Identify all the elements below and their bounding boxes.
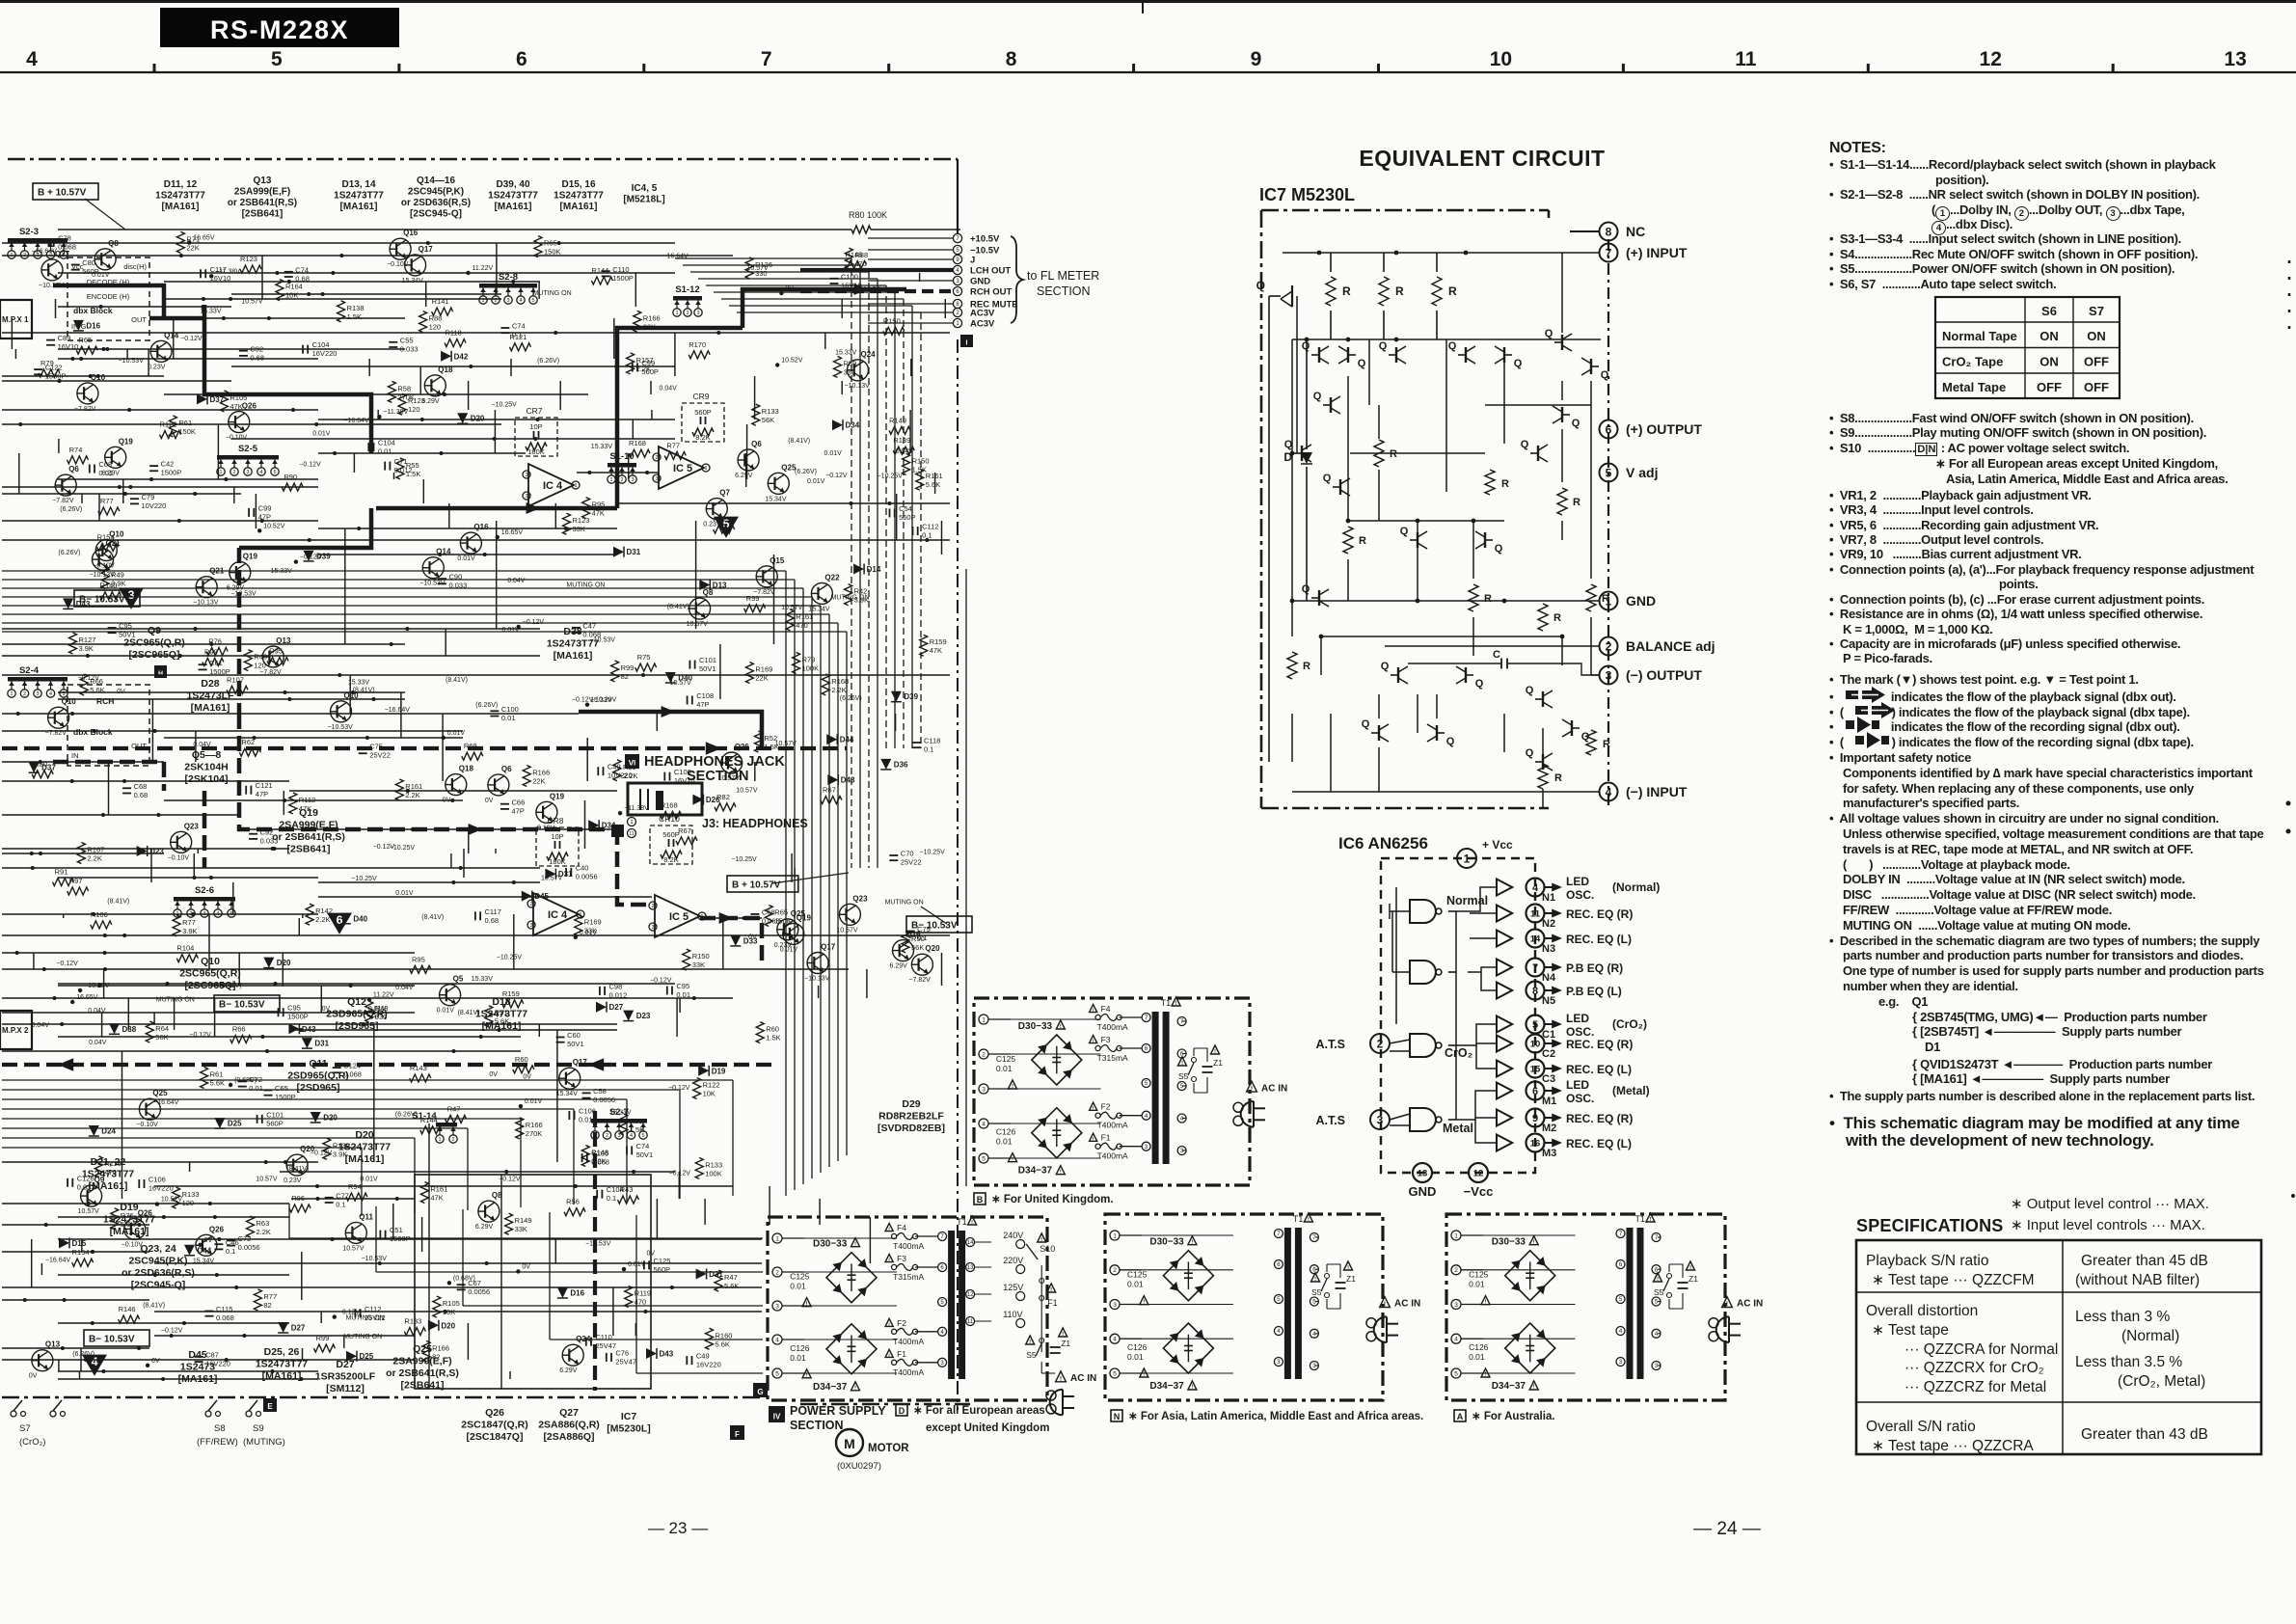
- svg-text:∗ For United Kingdom.: ∗ For United Kingdom.: [991, 1194, 1114, 1205]
- svg-text:8.2K: 8.2K: [663, 855, 678, 864]
- svg-text:R159: R159: [930, 637, 947, 646]
- svg-text:2SC945(P,K): 2SC945(P,K): [408, 187, 464, 198]
- svg-text:−10.29V: −10.29V: [84, 983, 110, 989]
- svg-text:0.01V: 0.01V: [824, 450, 843, 457]
- svg-text:CR7: CR7: [526, 406, 542, 416]
- svg-text:C95: C95: [287, 1004, 301, 1013]
- svg-text:3: 3: [651, 925, 654, 931]
- svg-text:[MA161]: [MA161]: [554, 650, 593, 662]
- svg-text:(8.41V): (8.41V): [286, 1166, 309, 1173]
- svg-text:Q: Q: [1545, 328, 1553, 339]
- svg-text:R168: R168: [661, 800, 678, 809]
- svg-text:D31: D31: [709, 1270, 723, 1279]
- svg-text:4: 4: [1312, 1332, 1316, 1338]
- svg-text:R161: R161: [430, 1185, 447, 1194]
- svg-text:to FL METER: to FL METER: [1027, 269, 1099, 283]
- svg-text:0.01: 0.01: [676, 990, 690, 999]
- svg-text:S7: S7: [19, 1423, 31, 1434]
- svg-text:REC. EQ (L): REC. EQ (L): [1566, 1137, 1632, 1150]
- svg-text:25V47: 25V47: [615, 1357, 636, 1366]
- svg-text:R: R: [1553, 612, 1561, 624]
- svg-text:[MA161]: [MA161]: [345, 1153, 385, 1165]
- svg-text:16V220: 16V220: [696, 1361, 721, 1369]
- svg-text:15.33V: 15.33V: [472, 976, 494, 983]
- svg-text:OUT: OUT: [131, 315, 147, 324]
- svg-text:(−) INPUT: (−) INPUT: [1626, 784, 1688, 799]
- svg-text:(8.41V): (8.41V): [788, 438, 810, 445]
- svg-text:−0.12V: −0.12V: [669, 1170, 691, 1177]
- svg-text:R63: R63: [257, 1219, 270, 1228]
- svg-text:D34−37: D34−37: [1018, 1166, 1053, 1177]
- svg-text:6.29V: 6.29V: [475, 1224, 494, 1231]
- svg-text:Q13: Q13: [254, 176, 272, 186]
- svg-text:!: !: [1251, 1086, 1253, 1093]
- svg-text:LED: LED: [1566, 1078, 1589, 1092]
- svg-text:(6.26V): (6.26V): [475, 702, 498, 709]
- svg-text:−10.53V: −10.53V: [590, 637, 616, 644]
- svg-text:3.9K: 3.9K: [182, 927, 197, 935]
- svg-text:6: 6: [1180, 1052, 1184, 1058]
- svg-text:0.68: 0.68: [485, 916, 500, 925]
- svg-text:−0.10V: −0.10V: [387, 261, 409, 268]
- svg-text:2: 2: [620, 477, 623, 483]
- svg-text:6: 6: [1619, 1262, 1623, 1268]
- svg-text:13: 13: [967, 1265, 974, 1271]
- svg-text:3: 3: [956, 279, 959, 284]
- svg-text:3: 3: [36, 691, 39, 697]
- svg-text:−0.12V: −0.12V: [180, 336, 203, 342]
- svg-text:4: 4: [1454, 1337, 1458, 1343]
- svg-text:Q25: Q25: [152, 1089, 168, 1097]
- svg-text:1500P: 1500P: [161, 469, 182, 477]
- svg-text:— 24 —: — 24 —: [1693, 1519, 1761, 1539]
- svg-text:1S2473T77: 1S2473T77: [488, 191, 538, 202]
- svg-text:IC 5: IC 5: [673, 463, 692, 474]
- svg-text:R77: R77: [666, 441, 680, 449]
- svg-text:D42: D42: [454, 352, 469, 361]
- svg-text:3.9K: 3.9K: [111, 580, 125, 588]
- svg-text:J: J: [970, 256, 975, 266]
- svg-text:−0.12V: −0.12V: [56, 961, 78, 967]
- svg-text:R: R: [1501, 478, 1509, 490]
- svg-text:0.01V: 0.01V: [447, 730, 466, 737]
- svg-text:0V: 0V: [647, 1251, 656, 1258]
- svg-text:C125: C125: [1127, 1270, 1148, 1280]
- svg-text:F3: F3: [897, 1254, 906, 1263]
- svg-text:C106: C106: [591, 1150, 608, 1158]
- svg-text:AC IN: AC IN: [1737, 1299, 1763, 1310]
- svg-text:2: 2: [956, 311, 959, 316]
- svg-text:10.57V: 10.57V: [256, 1177, 278, 1183]
- svg-text:2SC945(P,K): 2SC945(P,K): [128, 1256, 187, 1267]
- svg-text:0.68: 0.68: [250, 353, 264, 362]
- svg-text:MUTING ON: MUTING ON: [885, 900, 924, 907]
- svg-text:R133: R133: [705, 1160, 722, 1169]
- svg-text:−10.25V: −10.25V: [878, 474, 904, 480]
- svg-text:0.01V: 0.01V: [395, 890, 414, 897]
- svg-text:6: 6: [956, 289, 959, 295]
- svg-text:47K: 47K: [430, 1194, 443, 1203]
- svg-text:12: 12: [1980, 48, 2002, 70]
- svg-text:C54: C54: [899, 504, 912, 513]
- svg-text:R143: R143: [410, 1064, 427, 1072]
- svg-text:MUTING ON: MUTING ON: [343, 1334, 382, 1340]
- svg-text:5: 5: [1532, 1019, 1538, 1031]
- svg-text:B: B: [977, 1195, 984, 1204]
- svg-text:16.65V: 16.65V: [501, 529, 524, 536]
- svg-text:1: 1: [704, 466, 707, 472]
- svg-text:D23: D23: [636, 1012, 651, 1020]
- svg-text:M2: M2: [1542, 1123, 1556, 1134]
- svg-text:−10.25V: −10.25V: [351, 876, 377, 882]
- svg-text:1: 1: [630, 820, 634, 826]
- svg-text:3: 3: [246, 470, 249, 475]
- svg-text:560P: 560P: [82, 267, 99, 276]
- svg-text:R150: R150: [692, 952, 710, 961]
- svg-text:N5: N5: [1542, 995, 1555, 1007]
- svg-text:∗ Test tape ··· QZZCRA: ∗ Test tape ··· QZZCRA: [1872, 1438, 2034, 1454]
- svg-text:0.01: 0.01: [249, 1084, 263, 1093]
- svg-text:C110: C110: [612, 265, 629, 274]
- svg-text:C124: C124: [343, 1062, 361, 1070]
- svg-text:F1: F1: [1047, 1298, 1058, 1308]
- svg-text:47K: 47K: [230, 402, 242, 411]
- svg-text:2: 2: [232, 470, 235, 475]
- svg-text:2.2K: 2.2K: [831, 686, 846, 694]
- svg-text:7: 7: [1145, 1015, 1148, 1021]
- svg-text:−0.10V: −0.10V: [136, 1122, 158, 1128]
- svg-text:[MA161]: [MA161]: [495, 202, 532, 212]
- svg-text:Q6: Q6: [68, 465, 79, 474]
- svg-text:AC IN: AC IN: [1261, 1083, 1287, 1094]
- svg-text:Q: Q: [1572, 418, 1580, 429]
- svg-text:S2-3: S2-3: [19, 227, 39, 237]
- svg-text:R: R: [1448, 284, 1457, 298]
- svg-text:0.01: 0.01: [1469, 1352, 1485, 1362]
- svg-text:R77: R77: [182, 918, 196, 927]
- svg-text:Q27: Q27: [559, 1407, 579, 1419]
- svg-text:2: 2: [23, 691, 26, 697]
- svg-text:−10.25V: −10.25V: [497, 955, 523, 961]
- svg-text:9: 9: [1251, 48, 1262, 70]
- svg-text:C67: C67: [468, 1279, 481, 1287]
- svg-text:2: 2: [1377, 1037, 1384, 1050]
- svg-text:−7.82V: −7.82V: [908, 977, 931, 984]
- svg-text:[2SC1847Q]: [2SC1847Q]: [467, 1431, 524, 1443]
- svg-text:ON: ON: [2039, 329, 2059, 343]
- svg-text:10.57V: 10.57V: [670, 680, 692, 687]
- svg-text:C72: C72: [249, 1075, 262, 1084]
- svg-text:0.68: 0.68: [134, 791, 149, 799]
- svg-text:0.068: 0.068: [343, 1070, 362, 1079]
- svg-text:Q21: Q21: [209, 567, 225, 576]
- svg-text:R82: R82: [716, 793, 730, 801]
- svg-text:Q14: Q14: [164, 331, 179, 339]
- svg-text:6.29V: 6.29V: [102, 470, 121, 476]
- svg-text:2: 2: [686, 311, 689, 316]
- svg-text:−Vcc: −Vcc: [1464, 1184, 1494, 1199]
- svg-text:3: 3: [506, 298, 509, 304]
- svg-text:C115: C115: [216, 1305, 232, 1313]
- svg-text:R164: R164: [285, 283, 303, 291]
- svg-text:T400mA: T400mA: [1097, 1022, 1128, 1032]
- svg-text:!: !: [1040, 1237, 1042, 1243]
- svg-text:IC 5: IC 5: [669, 911, 689, 923]
- svg-text:0.23V: 0.23V: [148, 364, 166, 370]
- svg-text:D36: D36: [894, 760, 908, 769]
- svg-text:R99: R99: [621, 663, 635, 672]
- svg-text:!: !: [1347, 1265, 1349, 1271]
- svg-text:−0.12V: −0.12V: [825, 473, 848, 479]
- svg-text:2SA886(Q,R): 2SA886(Q,R): [538, 1420, 600, 1431]
- svg-text:[MA161]: [MA161]: [560, 202, 598, 212]
- svg-text:−0.12V: −0.12V: [311, 1150, 333, 1157]
- svg-text:!: !: [1181, 1061, 1183, 1067]
- svg-text:11.22V: 11.22V: [473, 265, 494, 272]
- svg-text:!: !: [1191, 1239, 1193, 1245]
- svg-text:−10.53V: −10.53V: [859, 286, 885, 293]
- svg-text:5: 5: [1277, 1297, 1281, 1303]
- svg-text:D34−37: D34−37: [1149, 1381, 1184, 1392]
- svg-text:Q11: Q11: [359, 1212, 373, 1221]
- svg-text:Q23, 24: Q23, 24: [140, 1243, 176, 1255]
- svg-text:0V: 0V: [117, 689, 125, 695]
- svg-text:120: 120: [408, 405, 420, 414]
- svg-text:2.2K: 2.2K: [87, 854, 101, 863]
- svg-text:−10.53V: −10.53V: [230, 590, 257, 597]
- svg-text:AC IN: AC IN: [1394, 1299, 1420, 1310]
- svg-text:Q: Q: [1358, 358, 1366, 369]
- svg-text:4: 4: [1655, 1332, 1659, 1338]
- svg-text:+ Vcc: + Vcc: [1482, 838, 1513, 852]
- svg-text:R74: R74: [69, 446, 83, 454]
- svg-text:S5: S5: [1026, 1350, 1037, 1360]
- svg-text:D20: D20: [471, 415, 485, 423]
- svg-text:−10.25V: −10.25V: [492, 402, 518, 409]
- svg-text:R: R: [1602, 593, 1609, 605]
- svg-text:R154: R154: [72, 1248, 90, 1257]
- svg-text:R: R: [1573, 497, 1580, 508]
- svg-text:D30−33: D30−33: [1149, 1237, 1184, 1248]
- svg-text:7: 7: [1312, 1235, 1316, 1241]
- svg-text:3: 3: [1454, 1302, 1458, 1309]
- svg-text:D20: D20: [277, 959, 291, 967]
- svg-text:47K: 47K: [592, 509, 605, 518]
- svg-text:−16.64V: −16.64V: [343, 418, 369, 424]
- svg-text:T315mA: T315mA: [893, 1272, 924, 1282]
- svg-text:Normal Tape: Normal Tape: [1942, 329, 2017, 343]
- svg-text:+10.5V: +10.5V: [970, 234, 1000, 245]
- svg-text:−7.82V: −7.82V: [45, 730, 68, 737]
- svg-text:A: A: [1457, 1412, 1464, 1421]
- svg-text:4: 4: [259, 470, 262, 475]
- svg-text:12: 12: [1473, 1168, 1484, 1178]
- svg-text:S8: S8: [214, 1423, 226, 1434]
- svg-text:0.01V: 0.01V: [437, 1008, 455, 1015]
- svg-text:0V: 0V: [29, 1373, 38, 1380]
- svg-text:1.5K: 1.5K: [630, 1125, 644, 1134]
- svg-text:or 2SD636(R,S): or 2SD636(R,S): [122, 1267, 195, 1279]
- svg-text:1.5K: 1.5K: [766, 1034, 780, 1042]
- svg-text:C101: C101: [266, 1110, 284, 1119]
- svg-text:R91: R91: [55, 868, 68, 877]
- svg-text:470: 470: [854, 259, 867, 268]
- svg-text:Q: Q: [1400, 526, 1409, 537]
- svg-text:5: 5: [1145, 1081, 1148, 1087]
- svg-text:Q17: Q17: [419, 245, 434, 254]
- svg-text:R: R: [1390, 448, 1397, 460]
- svg-text:Q21: Q21: [106, 539, 122, 548]
- svg-text:10.57V: 10.57V: [241, 298, 263, 305]
- svg-text:(8.41V): (8.41V): [143, 1302, 165, 1309]
- svg-text:−10.13V: −10.13V: [193, 600, 219, 607]
- svg-text:!: !: [806, 1302, 808, 1308]
- svg-text:D25: D25: [228, 1120, 242, 1128]
- svg-text:16V220: 16V220: [149, 1184, 174, 1193]
- svg-text:1.5K: 1.5K: [347, 312, 362, 321]
- svg-text:T400mA: T400mA: [1097, 1151, 1128, 1161]
- svg-text:10: 10: [1490, 48, 1512, 70]
- svg-text:R65: R65: [544, 239, 557, 248]
- svg-text:S9: S9: [253, 1423, 264, 1434]
- svg-text:!: !: [1726, 1301, 1728, 1308]
- svg-text:R: R: [1395, 284, 1404, 298]
- svg-text:(8.41V): (8.41V): [220, 983, 242, 989]
- svg-text:Q23: Q23: [184, 822, 200, 830]
- svg-text:BALANCE adj: BALANCE adj: [1626, 638, 1715, 654]
- svg-text:D30−33: D30−33: [1492, 1237, 1526, 1248]
- svg-text:5: 5: [956, 248, 959, 254]
- svg-text:−0.10V: −0.10V: [226, 435, 248, 442]
- svg-text:SECTION: SECTION: [790, 1419, 844, 1432]
- svg-text:0.01: 0.01: [378, 447, 392, 456]
- svg-text:5: 5: [531, 298, 534, 304]
- svg-text:0.04V: 0.04V: [193, 742, 211, 748]
- svg-text:33K: 33K: [515, 1225, 527, 1233]
- svg-text:5: 5: [775, 1370, 779, 1377]
- svg-text:!: !: [1533, 1239, 1535, 1245]
- svg-text:(+) OUTPUT: (+) OUTPUT: [1626, 421, 1702, 437]
- svg-text:D19: D19: [712, 1067, 726, 1075]
- svg-text:C66: C66: [512, 798, 526, 806]
- svg-text:−0.10V: −0.10V: [122, 1241, 144, 1248]
- svg-text:(CrO₂, Metal): (CrO₂, Metal): [2118, 1373, 2205, 1390]
- svg-text:11: 11: [1530, 908, 1541, 919]
- svg-text:0.04V: 0.04V: [896, 448, 914, 455]
- svg-text:0.068: 0.068: [591, 1158, 609, 1167]
- svg-text:R129: R129: [714, 515, 731, 524]
- svg-text:−0.12V: −0.12V: [189, 1032, 211, 1039]
- svg-text:0.01: 0.01: [1127, 1280, 1144, 1289]
- svg-text:OSC.: OSC.: [1566, 888, 1594, 902]
- svg-text:1: 1: [675, 311, 678, 316]
- svg-text:50V1: 50V1: [636, 1150, 654, 1159]
- svg-text:REC. EQ (R): REC. EQ (R): [1566, 1038, 1633, 1051]
- svg-text:50V1: 50V1: [567, 1040, 584, 1048]
- svg-text:150K: 150K: [178, 427, 196, 436]
- svg-text:NC: NC: [1626, 224, 1645, 239]
- svg-text:0.04V: 0.04V: [507, 578, 526, 584]
- svg-text:5.6K: 5.6K: [724, 1282, 739, 1290]
- svg-text:10K: 10K: [285, 291, 298, 300]
- svg-text:D11, 12: D11, 12: [164, 179, 198, 190]
- svg-text:CrO₂: CrO₂: [1445, 1046, 1472, 1060]
- svg-text:C106: C106: [149, 1176, 166, 1184]
- svg-text:R: R: [1554, 772, 1562, 784]
- svg-text:Q7: Q7: [719, 489, 730, 498]
- svg-text:R58: R58: [397, 384, 411, 392]
- svg-text:11: 11: [629, 831, 634, 837]
- svg-text:100K: 100K: [705, 1169, 722, 1177]
- svg-text:6.29V: 6.29V: [735, 473, 753, 479]
- svg-text:0.1: 0.1: [226, 1247, 235, 1256]
- svg-text:C126: C126: [790, 1343, 810, 1353]
- svg-text:!: !: [1029, 1340, 1031, 1345]
- svg-text:−7.82V: −7.82V: [753, 589, 775, 596]
- svg-text:−0.10V: −0.10V: [168, 854, 190, 861]
- svg-text:11.22V: 11.22V: [373, 992, 394, 999]
- svg-text:R69: R69: [464, 742, 477, 750]
- svg-text:4: 4: [1606, 785, 1612, 798]
- svg-text:R90: R90: [284, 473, 297, 481]
- svg-text:−0.12V: −0.12V: [78, 675, 100, 682]
- svg-text:[MA161]: [MA161]: [162, 202, 200, 212]
- svg-text:(8.41V): (8.41V): [458, 1010, 480, 1016]
- svg-text:N1: N1: [1542, 892, 1555, 904]
- svg-text:1: 1: [1464, 852, 1471, 865]
- svg-text:C49: C49: [696, 1352, 710, 1361]
- svg-text:R119: R119: [635, 1289, 651, 1298]
- svg-text:2: 2: [606, 1133, 608, 1139]
- svg-text:16.65V: 16.65V: [193, 235, 215, 242]
- svg-text:C65: C65: [275, 1084, 288, 1093]
- svg-text:D23: D23: [149, 848, 164, 856]
- svg-text:B + 10.57V: B + 10.57V: [38, 188, 87, 199]
- svg-text:SPECIFICATIONS: SPECIFICATIONS: [1856, 1216, 2003, 1235]
- svg-text:MUTING ON: MUTING ON: [566, 582, 605, 588]
- svg-text:Q15: Q15: [770, 556, 785, 565]
- svg-text:RD8R2EB2LF: RD8R2EB2LF: [878, 1111, 944, 1123]
- svg-text:R166: R166: [432, 1343, 449, 1352]
- svg-text:(6.26V): (6.26V): [58, 550, 80, 556]
- svg-text:10.57V: 10.57V: [687, 621, 709, 628]
- svg-text:C70: C70: [901, 850, 914, 858]
- svg-text:−0.12V: −0.12V: [650, 978, 672, 985]
- svg-text:[2SB641]: [2SB641]: [242, 209, 284, 220]
- svg-text:(+) INPUT: (+) INPUT: [1626, 245, 1688, 260]
- svg-text:D27: D27: [291, 1324, 306, 1333]
- svg-text:2SK104H: 2SK104H: [184, 762, 229, 773]
- svg-text:22K: 22K: [643, 322, 656, 331]
- svg-text:C74: C74: [512, 322, 526, 331]
- svg-text:14: 14: [967, 1240, 974, 1246]
- svg-text:MUTING ON: MUTING ON: [533, 290, 572, 297]
- svg-text:!: !: [1657, 1277, 1659, 1283]
- svg-text:[M5230L]: [M5230L]: [607, 1423, 651, 1435]
- svg-text:3: 3: [1377, 1113, 1384, 1126]
- svg-text:OFF: OFF: [2037, 380, 2062, 394]
- svg-text:Z1: Z1: [1213, 1058, 1223, 1068]
- svg-text:5.6K: 5.6K: [716, 1340, 730, 1348]
- svg-text:180K: 180K: [527, 447, 545, 456]
- svg-text:[2SB641]: [2SB641]: [287, 844, 331, 855]
- svg-text:3: 3: [940, 1361, 944, 1367]
- svg-text:!: !: [971, 1220, 973, 1226]
- svg-text:4: 4: [1145, 1114, 1148, 1120]
- svg-text:13: 13: [2224, 48, 2246, 70]
- svg-text:C126: C126: [77, 1174, 95, 1182]
- svg-text:R169: R169: [584, 917, 602, 926]
